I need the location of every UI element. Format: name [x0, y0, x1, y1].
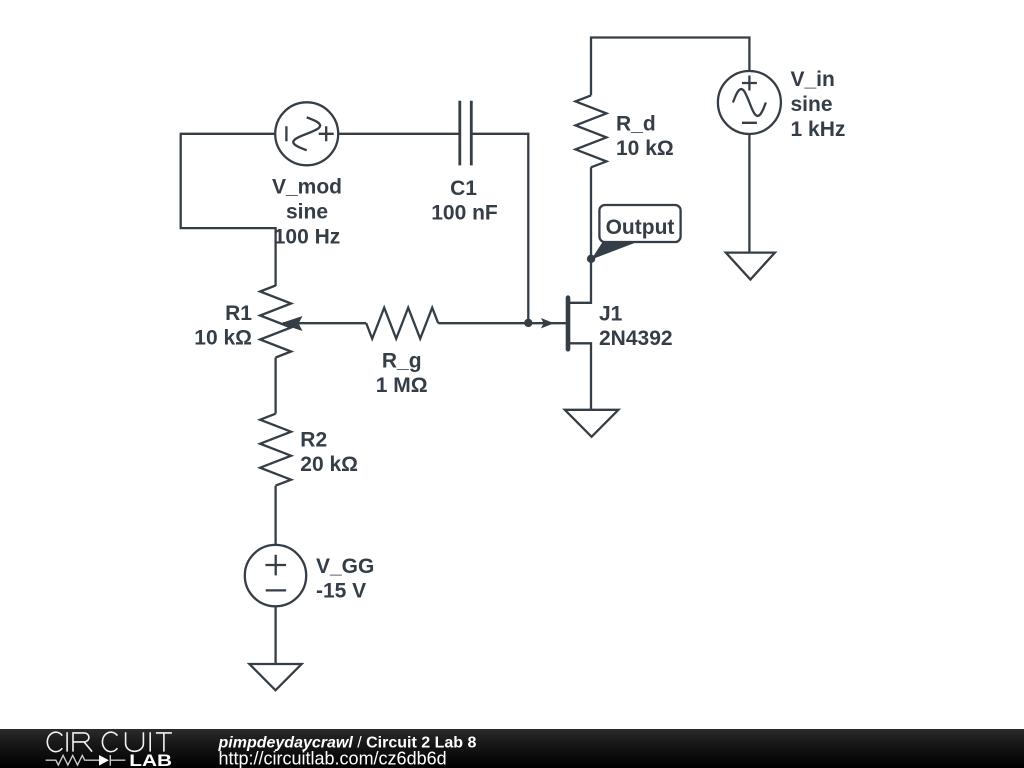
- output callout pointer: [591, 242, 634, 260]
- resistor R2: [260, 414, 291, 486]
- transistor J1 gate bar: [566, 298, 571, 350]
- logo schematic: wire resistor diode: [46, 755, 126, 766]
- ground under V_GG: [249, 664, 301, 690]
- logo diode triangle: [99, 755, 109, 766]
- svg-text:10 kΩ: 10 kΩ: [194, 327, 252, 350]
- svg-text:sine: sine: [286, 201, 328, 224]
- svg-text:100 Hz: 100 Hz: [274, 226, 341, 249]
- svg-text:100 nF: 100 nF: [431, 202, 498, 225]
- logo CIRCUIT text (thin strokes): [47, 732, 172, 751]
- voltage source V_mod (sine, rotated): [275, 102, 338, 165]
- svg-text:V_mod: V_mod: [272, 176, 342, 199]
- ground under J1 source: [565, 410, 619, 437]
- wire R1 bottom to R2 top: [274, 358, 276, 414]
- svg-text:R2: R2: [300, 428, 327, 451]
- R1 wiper arrow: [280, 316, 303, 331]
- wire R_d bottom through output node to JFET drain: [569, 167, 591, 302]
- svg-text:J1: J1: [599, 302, 623, 325]
- wire R2 bottom to V_GG top: [274, 486, 276, 545]
- svg-text:R_g: R_g: [382, 350, 422, 373]
- svg-text:2N4392: 2N4392: [599, 327, 673, 350]
- svg-text:sine: sine: [791, 93, 833, 116]
- node dot output: [587, 255, 595, 263]
- svg-text:20 kΩ: 20 kΩ: [300, 453, 358, 476]
- wire R1 wiper to R_g left: [283, 322, 366, 324]
- J1 gate arrow: [541, 318, 554, 328]
- svg-text:10 kΩ: 10 kΩ: [616, 137, 674, 160]
- output callout box: [599, 205, 680, 242]
- potentiometer R1: [260, 286, 291, 358]
- wire R_g right to JFET gate bar: [438, 322, 567, 324]
- svg-text:R_d: R_d: [616, 113, 656, 136]
- svg-text:-15 V: -15 V: [316, 580, 366, 603]
- wire C1 right plate to gate node: [472, 134, 528, 323]
- voltage source V_GG (DC): [245, 545, 306, 606]
- svg-text:LAB: LAB: [129, 752, 172, 768]
- voltage source V_in (sine): [718, 71, 781, 134]
- svg-text:V_in: V_in: [791, 68, 835, 91]
- wire V_GG bottom to ground: [274, 606, 276, 664]
- resistor R_d: [576, 95, 607, 167]
- capacitor C1: [460, 101, 472, 166]
- svg-text:R1: R1: [225, 302, 252, 325]
- wire JFET source to ground: [569, 343, 591, 410]
- wire V_in bottom to ground: [748, 134, 750, 253]
- wire top rail R_d to V_in: [591, 38, 749, 96]
- resistor R_g: [366, 308, 438, 339]
- svg-text:1 kHz: 1 kHz: [791, 118, 846, 141]
- wire V_mod plus to C1 left plate: [338, 133, 459, 135]
- ground under V_in: [726, 253, 775, 280]
- svg-text:V_GG: V_GG: [316, 555, 374, 578]
- svg-text:1 MΩ: 1 MΩ: [376, 374, 428, 397]
- wire left loop from V_mod minus terminal down to R1: [181, 134, 276, 286]
- svg-text:http://circuitlab.com/cz6db6d: http://circuitlab.com/cz6db6d: [219, 748, 447, 768]
- svg-text:C1: C1: [450, 177, 477, 200]
- node dot gate junction: [524, 319, 532, 327]
- footer bar: [0, 729, 1024, 768]
- svg-text:Output: Output: [606, 216, 675, 239]
